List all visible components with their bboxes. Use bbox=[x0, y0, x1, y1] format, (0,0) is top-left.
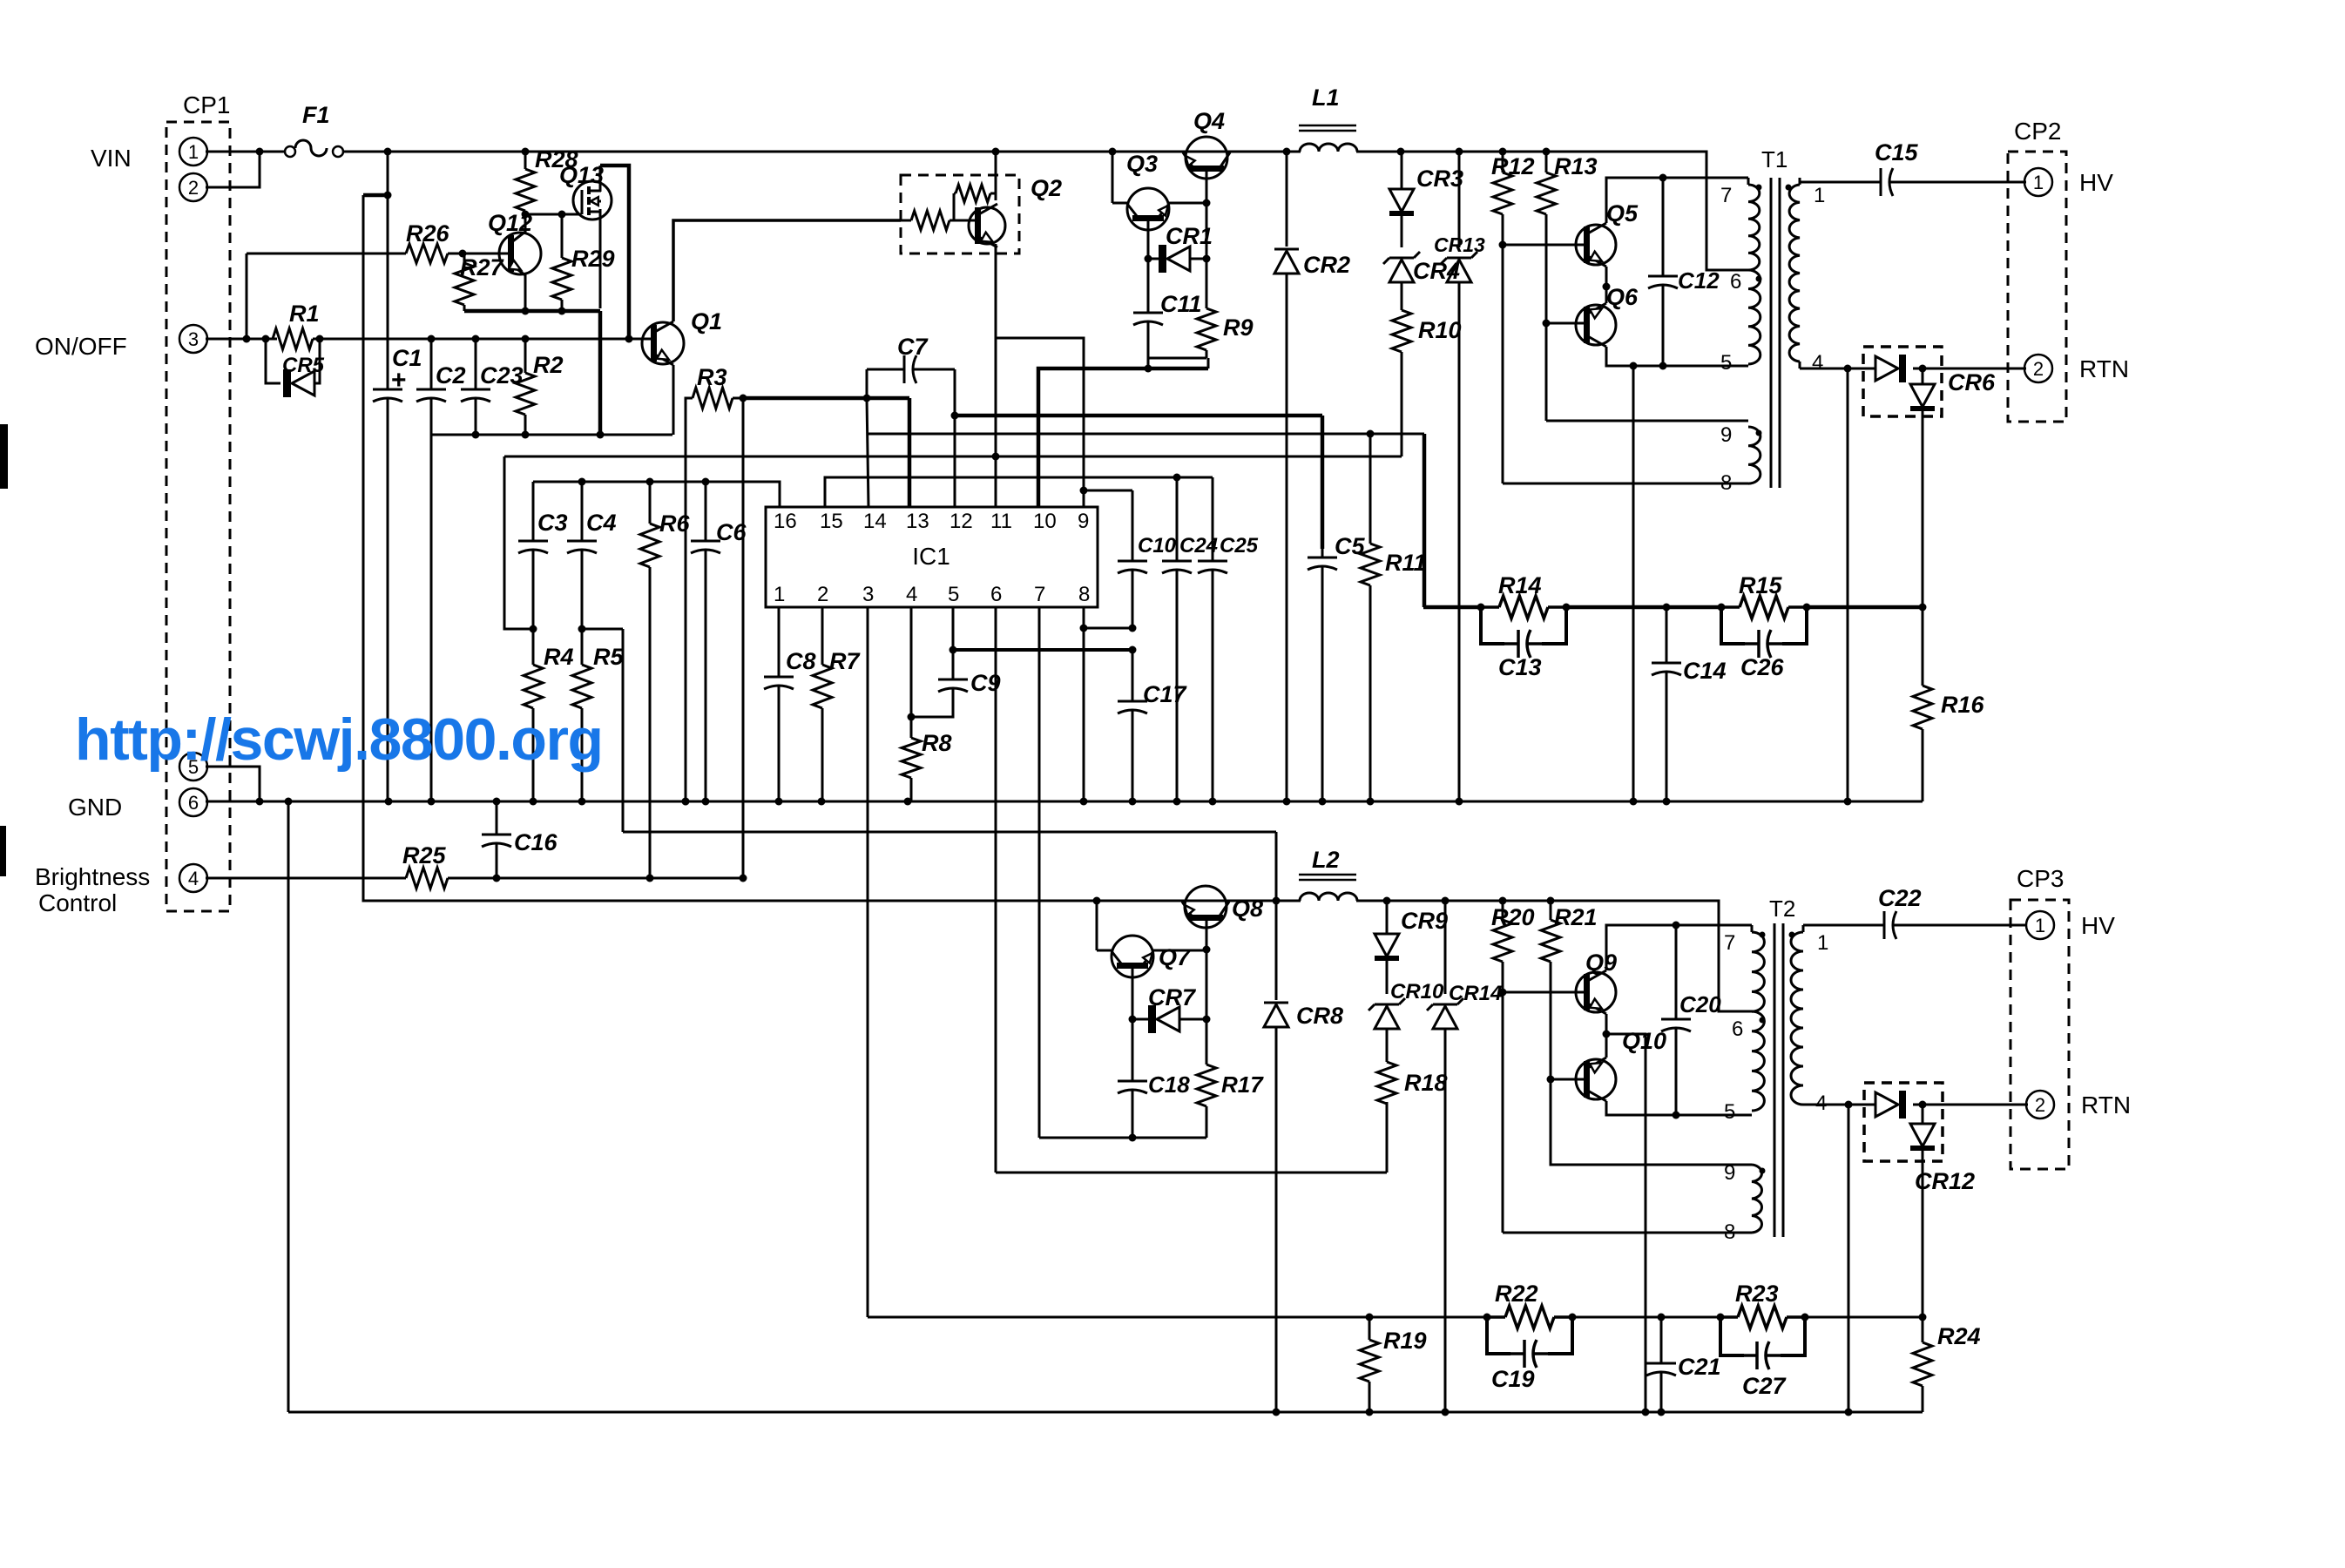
diode CR6 shunt element bbox=[1910, 368, 1935, 409]
wire R10 bottom to feedback rail bbox=[1401, 353, 1403, 456]
wire rail R14 to R15 bbox=[1566, 604, 1721, 612]
svg-text:L2: L2 bbox=[1312, 847, 1340, 873]
resistor R19 bbox=[1360, 1314, 1379, 1413]
capacitor C2 bbox=[416, 339, 446, 801]
svg-text:R16: R16 bbox=[1941, 692, 1985, 718]
wire ON/OFF from CP1 pin3 bbox=[206, 335, 277, 343]
label R11 bbox=[1385, 550, 1427, 576]
node Q9 Q10 midpoint to bottom rail bbox=[1603, 1014, 1646, 1412]
wire IC1 pin14 line to feedback rail riser bbox=[868, 430, 1424, 438]
svg-text:9: 9 bbox=[1724, 1161, 1735, 1185]
svg-text:14: 14 bbox=[863, 510, 887, 533]
svg-text:7: 7 bbox=[1034, 583, 1045, 606]
label CR6 bbox=[1948, 369, 1996, 395]
resistor R25 bbox=[386, 868, 468, 889]
svg-text:1: 1 bbox=[188, 141, 199, 163]
transformer T1 aux winding pins 9-8 bbox=[1748, 427, 1760, 483]
svg-text:Q12: Q12 bbox=[488, 210, 532, 236]
capacitor C26 parallel with R15 bbox=[1721, 607, 1807, 658]
label HV (CP3) bbox=[2081, 912, 2115, 939]
transformer T2 secondary winding pins 1-4 bbox=[1791, 925, 1803, 1105]
label C5 bbox=[1335, 533, 1365, 559]
label C22 bbox=[1878, 885, 1922, 911]
svg-text:7: 7 bbox=[1720, 184, 1732, 207]
svg-text:4: 4 bbox=[188, 868, 199, 889]
wire IC1 pin7 column down to C18 R17 return bbox=[1038, 607, 1041, 1138]
svg-text:R3: R3 bbox=[697, 364, 727, 390]
svg-text:F1: F1 bbox=[302, 102, 330, 128]
label R17 bbox=[1221, 1071, 1264, 1098]
label Q13 bbox=[559, 162, 604, 188]
wire bus R22 to R23 bbox=[1572, 1314, 1720, 1321]
svg-text:C10: C10 bbox=[1138, 534, 1177, 558]
wire IC1 pin6 return to R18 bbox=[996, 1172, 1387, 1174]
svg-text:R23: R23 bbox=[1735, 1281, 1779, 1307]
wire Q12 emitter bus bbox=[464, 274, 600, 315]
label R5 bbox=[593, 644, 624, 670]
label R3 bbox=[697, 364, 727, 390]
wire VIN rail fuse to Q4 bbox=[343, 148, 1301, 156]
svg-text:http://scwj.8800.org: http://scwj.8800.org bbox=[75, 706, 604, 773]
svg-text:R26: R26 bbox=[406, 220, 450, 247]
svg-text:10: 10 bbox=[1033, 510, 1057, 533]
wire Q7 feed from lower rail bbox=[1093, 897, 1101, 951]
capacitor C1 (electrolytic, VIN to GND) bbox=[373, 195, 402, 801]
transistor Q8 inline on lower rail bbox=[1182, 886, 1229, 928]
svg-text:6: 6 bbox=[1730, 270, 1741, 294]
resistor R21 bbox=[1541, 901, 1560, 1079]
label Q6 bbox=[1606, 284, 1639, 310]
svg-text:T2: T2 bbox=[1769, 896, 1795, 922]
svg-text:GND: GND bbox=[68, 794, 122, 821]
diode CR12 series element bbox=[1863, 1091, 1906, 1119]
transistor Q10 bbox=[1576, 1058, 1616, 1101]
label R16 bbox=[1941, 692, 1985, 718]
svg-text:C19: C19 bbox=[1491, 1366, 1535, 1392]
resistor R16 bbox=[1913, 607, 1932, 801]
label C1 and polarity + bbox=[391, 345, 422, 395]
label R15 bbox=[1739, 572, 1783, 598]
svg-text:3: 3 bbox=[862, 583, 874, 606]
wire Q4 base column down through CR1 to R9 bbox=[1203, 172, 1211, 295]
wire T2 pin4 column down to bottom rail bbox=[1848, 1105, 1850, 1412]
svg-text:C4: C4 bbox=[586, 510, 617, 536]
wire R21 to T2 pin9 bbox=[1551, 1079, 1752, 1165]
svg-text:R2: R2 bbox=[533, 352, 564, 378]
label Q9 bbox=[1585, 950, 1617, 976]
svg-text:2: 2 bbox=[2035, 1094, 2045, 1116]
label C2 bbox=[436, 362, 466, 389]
svg-text:C27: C27 bbox=[1742, 1373, 1787, 1399]
wire Q5 collector to T1 pin7 bbox=[1606, 174, 1748, 224]
svg-text:C8: C8 bbox=[786, 648, 816, 674]
label VIN bbox=[91, 145, 132, 172]
diode CR13 (zener) bbox=[1441, 152, 1477, 801]
transistor Q4 inline on rail bbox=[1183, 137, 1230, 179]
transformer T2 aux winding pins 9-8 bbox=[1752, 1165, 1762, 1233]
svg-text:CR9: CR9 bbox=[1401, 908, 1448, 934]
svg-text:R11: R11 bbox=[1385, 550, 1427, 576]
label GND bbox=[68, 794, 122, 821]
svg-text:RTN: RTN bbox=[2079, 355, 2129, 382]
diode CR12 shunt element bbox=[1910, 1105, 1935, 1148]
resistor R11 bbox=[1361, 434, 1380, 801]
resistor R10 bbox=[1392, 283, 1411, 353]
resistor R27 bbox=[455, 253, 474, 311]
svg-text:R25: R25 bbox=[402, 842, 447, 868]
wire IC1 pin8 column to GND with C17 tap bbox=[1080, 607, 1137, 801]
resistor R4 bbox=[524, 629, 543, 801]
svg-text:CR2: CR2 bbox=[1303, 252, 1350, 278]
label CP1 bbox=[183, 91, 230, 118]
svg-text:IC1: IC1 bbox=[912, 543, 950, 570]
wire Q13 source bus down to lower rail bbox=[598, 311, 603, 435]
svg-text:+: + bbox=[391, 366, 407, 395]
label CR7 bbox=[1148, 984, 1197, 1010]
wire T2 pin1 to C22 bbox=[1803, 924, 1868, 927]
inductor L2 bbox=[1299, 875, 1357, 901]
label R20 bbox=[1491, 904, 1535, 930]
connector CP2 dashed outline bbox=[2008, 152, 2066, 422]
label CR14 bbox=[1449, 982, 1502, 1005]
resistor R5 bbox=[572, 629, 591, 801]
wire IC1 pin3 down to lower feedback bus bbox=[867, 607, 869, 1317]
resistor R29 bbox=[552, 214, 571, 311]
svg-text:16: 16 bbox=[774, 510, 797, 533]
label R12 bbox=[1491, 153, 1535, 179]
label CR8 bbox=[1296, 1003, 1343, 1029]
resistor R6 bbox=[640, 482, 659, 878]
svg-text:R14: R14 bbox=[1498, 572, 1542, 598]
diode CR7 bbox=[1132, 1005, 1206, 1033]
connector CP1 pin 1 bbox=[179, 138, 207, 166]
label R29 bbox=[571, 246, 615, 272]
svg-text:5: 5 bbox=[1724, 1100, 1735, 1124]
wire Q6 base from R13 column bbox=[1543, 320, 1586, 422]
watermark URL text bbox=[75, 706, 604, 773]
label R8 bbox=[922, 730, 952, 756]
svg-text:1: 1 bbox=[1814, 184, 1825, 207]
svg-text:2: 2 bbox=[2033, 358, 2044, 380]
wire Q6 collector to T1 pin5 line bbox=[1606, 347, 1748, 370]
svg-text:R4: R4 bbox=[544, 644, 574, 670]
svg-text:C14: C14 bbox=[1683, 658, 1727, 684]
transistor Q13 (MOSFET) bbox=[573, 166, 612, 308]
label C25 bbox=[1220, 534, 1259, 558]
svg-text:C12: C12 bbox=[1678, 267, 1720, 294]
transistor Q12 bbox=[499, 214, 541, 275]
resistor R13 bbox=[1537, 152, 1556, 323]
svg-text:9: 9 bbox=[1078, 510, 1089, 533]
wire left ground return to bottom rail bbox=[287, 801, 290, 1412]
svg-text:4: 4 bbox=[1812, 351, 1823, 375]
wire Q7 base down to CR7 bbox=[1129, 969, 1137, 1024]
label C20 bbox=[1679, 991, 1721, 1017]
svg-text:C7: C7 bbox=[897, 334, 929, 360]
T2 pin numbers and phase dots bbox=[1724, 931, 1828, 1244]
IC1 top pin numbers 16-9 bbox=[774, 510, 1089, 533]
capacitor C6 bbox=[691, 482, 720, 801]
wire Q2 emitter down to IC1 pins 11 and 9 bbox=[996, 244, 1084, 507]
wire IC1 pin6 column down to R18 return bbox=[995, 607, 997, 1173]
label R2 bbox=[533, 352, 564, 378]
label R23 bbox=[1735, 1281, 1779, 1307]
wire R3 to IC1 pin13 (bold) bbox=[743, 395, 909, 508]
svg-text:R29: R29 bbox=[571, 246, 615, 272]
capacitor C3 bbox=[518, 482, 548, 629]
label HV (CP2) bbox=[2079, 169, 2113, 196]
svg-text:8: 8 bbox=[1078, 583, 1090, 606]
svg-text:5: 5 bbox=[948, 583, 959, 606]
resistor R8 bbox=[902, 717, 921, 801]
wire T1 pin5 sense column down to GND rail bbox=[1632, 366, 1635, 801]
svg-text:Q5: Q5 bbox=[1606, 200, 1639, 226]
wire rail L1 to T1 pin6 feed bbox=[1283, 148, 1749, 271]
svg-text:9: 9 bbox=[1720, 423, 1732, 447]
resistor R9 bbox=[1197, 295, 1216, 358]
label C11 bbox=[1160, 291, 1202, 317]
wire R26 riser from ON/OFF line bbox=[243, 253, 251, 343]
svg-text:7: 7 bbox=[1724, 931, 1735, 955]
IC1 bottom pin numbers 1-8 bbox=[774, 583, 1090, 606]
svg-text:R17: R17 bbox=[1221, 1071, 1264, 1098]
label Q10 bbox=[1622, 1028, 1666, 1054]
capacitor C23 bbox=[461, 339, 490, 435]
connector CP1 pin 4 bbox=[179, 864, 207, 892]
resistor Q2 input resistor bbox=[901, 211, 977, 230]
transformer T2 core bbox=[1774, 923, 1783, 1237]
svg-text:C22: C22 bbox=[1878, 885, 1922, 911]
capacitor C17 bbox=[1118, 650, 1147, 801]
label CR3 bbox=[1416, 166, 1463, 192]
capacitor C9 on IC1 pin5 bbox=[911, 669, 968, 717]
svg-text:5: 5 bbox=[1720, 351, 1732, 375]
label C16 bbox=[514, 829, 558, 855]
diode CR8 bbox=[1264, 901, 1288, 1412]
label R22 bbox=[1495, 1281, 1538, 1307]
diode CR1 bbox=[1148, 245, 1206, 273]
svg-text:8: 8 bbox=[1724, 1220, 1735, 1244]
fuse F1 bbox=[285, 140, 343, 157]
wire IC1 pin12 net (bold) to C5 bbox=[955, 416, 1322, 549]
label CR4 bbox=[1413, 258, 1460, 284]
wire CP1 pin2 up to VIN rail bbox=[206, 148, 264, 188]
label C8 bbox=[786, 648, 816, 674]
capacitor C27 parallel with R23 bbox=[1720, 1317, 1805, 1369]
wire T1 pin4 column down to GND rail bbox=[1847, 368, 1849, 801]
label T1 bbox=[1761, 146, 1787, 172]
svg-text:C18: C18 bbox=[1148, 1071, 1190, 1098]
svg-text:CP3: CP3 bbox=[2017, 865, 2064, 892]
svg-text:R8: R8 bbox=[922, 730, 952, 756]
svg-text:1: 1 bbox=[774, 583, 785, 606]
label Q5 bbox=[1606, 200, 1639, 226]
label R19 bbox=[1383, 1328, 1427, 1354]
label C4 bbox=[586, 510, 617, 536]
svg-text:3: 3 bbox=[188, 328, 199, 350]
diode CR12 dashed box bbox=[1864, 1083, 1943, 1161]
wire R20 to T2 pin8 bbox=[1503, 1232, 1752, 1234]
svg-text:C17: C17 bbox=[1143, 681, 1188, 707]
T1 pin numbers and phase dots bbox=[1720, 184, 1825, 495]
svg-text:CP2: CP2 bbox=[2014, 118, 2061, 145]
label Q1 bbox=[691, 308, 722, 335]
wire VIN branch via x445 and x417 down to lower rail bbox=[363, 152, 1301, 901]
svg-text:R10: R10 bbox=[1418, 317, 1462, 343]
capacitor C22 bbox=[1803, 911, 2026, 939]
label R14 bbox=[1498, 572, 1542, 598]
label C3 bbox=[537, 510, 568, 536]
label R24 bbox=[1937, 1323, 1981, 1349]
connector CP3 pin 1 bbox=[2026, 911, 2054, 939]
node R28 bottom / Q12 collector / Q13 gate bbox=[522, 211, 582, 219]
wire T2 pin4 to CR12 and CP3 pin2 bbox=[1803, 1101, 2028, 1109]
label CP2 bbox=[2014, 118, 2061, 145]
svg-text:Q2: Q2 bbox=[1031, 175, 1062, 201]
label Q8 bbox=[1232, 896, 1263, 922]
transistor Q5 bbox=[1576, 223, 1616, 267]
svg-text:CR7: CR7 bbox=[1148, 984, 1197, 1010]
wire Q13 drain to ON/OFF line bbox=[600, 166, 629, 339]
svg-text:C11: C11 bbox=[1160, 291, 1202, 317]
node C4 R5 midpoint to CT line bbox=[578, 625, 624, 833]
wire riser to R14 rail (bold) bbox=[1423, 434, 1427, 607]
wire Q10 base from R21 column bbox=[1547, 1076, 1586, 1084]
capacitor C10 bbox=[1118, 490, 1147, 628]
wire Q5 base from R12 column bbox=[1499, 241, 1586, 484]
svg-text:R5: R5 bbox=[593, 644, 624, 670]
svg-text:C2: C2 bbox=[436, 362, 466, 389]
svg-text:CR14: CR14 bbox=[1449, 982, 1502, 1005]
transformer T1 primary winding pins 7-6-5 bbox=[1748, 178, 1760, 364]
label R18 bbox=[1404, 1070, 1448, 1096]
diode CR9 bbox=[1375, 901, 1399, 958]
svg-text:Q1: Q1 bbox=[691, 308, 722, 335]
label C19 bbox=[1491, 1366, 1535, 1392]
label CR13 bbox=[1434, 233, 1485, 256]
label R28 bbox=[535, 146, 578, 172]
label C6 bbox=[716, 519, 747, 545]
capacitor C7 bbox=[867, 355, 955, 383]
wire CR12 output column to R24 bbox=[1919, 1148, 1927, 1321]
diode CR6 series element bbox=[1863, 355, 1906, 382]
label RTN (CP2) bbox=[2079, 355, 2129, 382]
resistor R17 bbox=[1197, 1045, 1216, 1138]
wire R13 to T1 pin9 bbox=[1546, 420, 1748, 422]
capacitor C14 bbox=[1652, 607, 1681, 801]
capacitor C25 bbox=[1198, 477, 1227, 801]
wire Q3 feed from VIN rail bbox=[1112, 152, 1114, 203]
label C21 bbox=[1678, 1354, 1721, 1380]
label Q3 bbox=[1126, 151, 1158, 177]
label R7 bbox=[829, 648, 861, 674]
wire IC1 pin10 net (bold) to C11/R9 bbox=[1038, 368, 1208, 507]
capacitor C5 bbox=[1308, 549, 1337, 801]
svg-text:CR13: CR13 bbox=[1434, 233, 1485, 256]
label C24 bbox=[1179, 534, 1218, 558]
svg-text:R12: R12 bbox=[1491, 153, 1535, 179]
label C23 bbox=[480, 362, 524, 389]
transistor Q2 bbox=[969, 204, 1005, 247]
label C27 bbox=[1742, 1373, 1787, 1399]
label C7 bbox=[897, 334, 929, 360]
wire compensation rail R14 R15 (bold) bbox=[1423, 605, 1481, 610]
resistor R28 bbox=[516, 152, 535, 214]
IC U1 (IC1) body bbox=[766, 507, 1098, 607]
connector CP1 dashed outline bbox=[166, 122, 230, 911]
node R3 output / brightness tie bbox=[740, 395, 747, 879]
svg-text:CR3: CR3 bbox=[1416, 166, 1463, 192]
svg-text:R22: R22 bbox=[1495, 1281, 1538, 1307]
wire ON/OFF line to Q1 base bbox=[320, 335, 652, 343]
svg-text:4: 4 bbox=[906, 583, 917, 606]
capacitor C24 bbox=[1162, 477, 1192, 801]
label R27 bbox=[460, 254, 505, 280]
feedback rail (IC pins 9/11 to R10) bbox=[504, 453, 1402, 461]
wire Q7 right lead to Q8 base column bbox=[1153, 950, 1206, 952]
svg-text:C6: C6 bbox=[716, 519, 747, 545]
svg-text:R1: R1 bbox=[289, 301, 320, 327]
diode CR6 dashed box bbox=[1863, 347, 1942, 416]
svg-text:Q7: Q7 bbox=[1159, 944, 1192, 970]
transformer T2 primary winding pins 7-6-5 bbox=[1752, 925, 1764, 1111]
transformer T1 core bbox=[1771, 178, 1780, 488]
svg-text:6: 6 bbox=[1732, 1017, 1743, 1041]
svg-text:12: 12 bbox=[949, 510, 973, 533]
label CR9 bbox=[1401, 908, 1448, 934]
wire bus R23 to R24 column bbox=[1805, 1316, 1923, 1319]
svg-text:15: 15 bbox=[820, 510, 843, 533]
wire Q1 emitter down to lower rail bbox=[672, 365, 675, 435]
label T2 bbox=[1769, 896, 1795, 922]
svg-text:CR1: CR1 bbox=[1166, 223, 1213, 249]
label C17 bbox=[1143, 681, 1188, 707]
label R13 bbox=[1554, 153, 1598, 179]
inductor L1 bbox=[1299, 125, 1357, 152]
svg-text:C15: C15 bbox=[1875, 139, 1919, 166]
wire IC1 pin16 rail to C3 C4 R6 C6 bbox=[533, 478, 780, 508]
svg-text:C20: C20 bbox=[1679, 991, 1721, 1017]
svg-text:RTN: RTN bbox=[2081, 1092, 2131, 1119]
svg-text:Q9: Q9 bbox=[1585, 950, 1617, 976]
svg-text:T1: T1 bbox=[1761, 146, 1787, 172]
label C26 bbox=[1740, 654, 1785, 680]
svg-text:Q6: Q6 bbox=[1606, 284, 1639, 310]
svg-text:R15: R15 bbox=[1739, 572, 1783, 598]
wire Q3 right lead to Q4 base column bbox=[1169, 199, 1211, 207]
connector CP2 pin 2 bbox=[2024, 355, 2052, 382]
capacitor C12 bbox=[1648, 178, 1678, 366]
label C14 bbox=[1683, 658, 1727, 684]
label CR5 bbox=[282, 354, 325, 377]
capacitor C18 bbox=[1118, 1019, 1147, 1138]
svg-text:R13: R13 bbox=[1554, 153, 1598, 179]
svg-text:1: 1 bbox=[2033, 172, 2044, 193]
wire Q8 base column down through CR7 to R17 bbox=[1203, 921, 1211, 1045]
resistor R3 bbox=[686, 388, 743, 409]
wire CP1 pin5 jog to GND rail bbox=[206, 767, 264, 806]
lower feedback bus from IC1 pin3 bbox=[868, 1316, 1487, 1319]
transistor Q2 subcircuit dashed box bbox=[901, 175, 1019, 253]
wire R3 ground leg bbox=[682, 398, 693, 806]
label CP3 bbox=[2017, 865, 2064, 892]
capacitor C19 parallel with R22 bbox=[1487, 1317, 1572, 1368]
wire IC1 pin9 jog to C10 bbox=[1080, 487, 1133, 495]
svg-text:R21: R21 bbox=[1554, 904, 1598, 930]
label C13 bbox=[1498, 654, 1542, 680]
wire IC1 pin15 rail to C24 C25 bbox=[825, 474, 1213, 508]
svg-text:CP1: CP1 bbox=[183, 91, 230, 118]
